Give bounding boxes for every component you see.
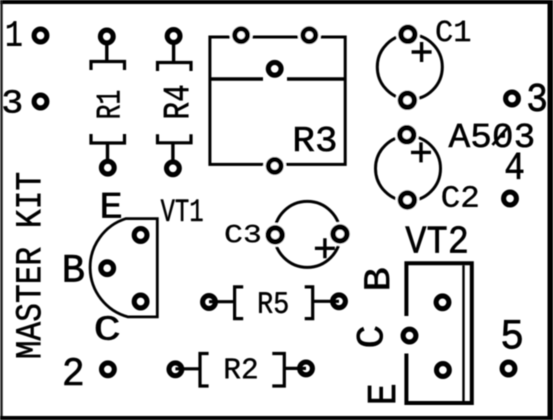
pad R4 top: [167, 30, 180, 43]
resistor R2: [169, 354, 312, 387]
mask top-left pad gap: [230, 24, 253, 47]
pad 4: [504, 192, 517, 205]
slash of zero: [493, 126, 510, 145]
pad C2 plus: [400, 128, 414, 142]
capacitor C2: [376, 123, 478, 212]
wire R5 right lead: [313, 300, 339, 303]
wire R3 wiper line right: [287, 77, 345, 80]
label MASTER KIT: [16, 173, 41, 357]
pin label E: [102, 193, 120, 218]
pad VT1 base: [101, 262, 114, 275]
wire R1 top lead: [105, 42, 108, 62]
C1 body outline: [377, 35, 442, 100]
pad VT1 emitter: [134, 229, 147, 242]
pad VT2 emitter: [437, 364, 450, 377]
transistor VT2: [357, 226, 472, 403]
wire R4 top lead: [172, 42, 175, 63]
resistor R1: [91, 30, 125, 174]
pin label 3 (right): [528, 84, 545, 112]
pad R3 bottom: [268, 160, 281, 173]
mask C1 bottom pad gap: [395, 88, 419, 112]
pin label B: [364, 269, 389, 289]
pad VT2 base: [436, 296, 449, 309]
label VT2: [405, 226, 466, 252]
pad 2: [102, 363, 115, 376]
pad R2 right: [300, 362, 313, 375]
R1 body bottom bracket: [91, 134, 125, 143]
pin label C: [357, 327, 383, 347]
label VT1: [161, 199, 203, 221]
wire R3 wiper line left: [210, 77, 263, 80]
C3 polarity plus sign: [315, 238, 335, 258]
wire R2 right lead: [284, 367, 306, 370]
pad 5: [502, 362, 515, 375]
label R4: [164, 86, 188, 118]
pin label E: [368, 385, 395, 402]
label R2: [226, 358, 257, 378]
mask bottom pad gap: [263, 154, 286, 177]
wire R4 bottom lead: [171, 143, 174, 163]
mask C2 top pad gap: [395, 123, 419, 147]
label C2: [442, 186, 477, 207]
pad VT2 collector: [403, 329, 416, 342]
pin label 1: [7, 21, 21, 45]
pad C1 plus: [401, 27, 415, 41]
R4 body bottom bracket: [158, 134, 192, 143]
value label A503: [449, 124, 534, 148]
pad R4 bottom: [167, 162, 180, 175]
label R1: [97, 91, 120, 117]
R1 body top bracket: [91, 62, 125, 71]
label C1: [437, 20, 470, 41]
pad R3 top-right: [303, 29, 316, 42]
mask C2 bottom pad gap: [395, 188, 419, 212]
C2 polarity plus sign: [411, 142, 431, 162]
wire R5 left lead: [209, 300, 234, 303]
label R3: [295, 127, 335, 152]
capacitor C3: [226, 201, 352, 267]
pin label 2: [64, 358, 82, 385]
pin label C: [96, 316, 119, 340]
C3 body outline: [274, 201, 340, 267]
R2 body right bracket: [272, 354, 284, 387]
wire R1 bottom lead: [106, 143, 109, 162]
pad R3 top-left: [235, 29, 248, 42]
pad C3 plus: [333, 227, 347, 241]
VT2 tab line: [462, 265, 464, 401]
mask C3 right pad gap: [328, 222, 352, 246]
VT1 body outline: [90, 219, 157, 317]
trimmer resistor R3: [210, 24, 345, 178]
pad 3 (left): [34, 95, 47, 108]
capacitor C1: [377, 20, 470, 112]
R2 body left bracket: [200, 354, 209, 387]
pad 3 (right): [506, 92, 519, 105]
pad R1 top: [100, 30, 113, 43]
mask top-right pad gap: [298, 24, 321, 47]
R3 body outline: [210, 37, 345, 164]
pad VT1 collector: [134, 295, 147, 308]
pin label 3 (left): [3, 90, 20, 113]
R5 body left bracket: [235, 287, 244, 319]
pad R5 left: [203, 296, 216, 309]
C2 body outline: [376, 136, 441, 201]
pin label 4: [506, 153, 523, 179]
mask C1 top pad gap: [396, 22, 420, 46]
R4 body top bracket: [158, 63, 192, 72]
label R5: [259, 292, 287, 313]
pad 1: [34, 29, 47, 42]
pad R2 left: [169, 363, 182, 376]
pad R5 right: [333, 295, 346, 308]
wire R2 left lead: [175, 367, 200, 370]
label C3: [226, 225, 260, 243]
R5 body right bracket: [305, 287, 313, 319]
pad R3 wiper: [268, 62, 281, 75]
pad C2 minus: [400, 193, 414, 207]
pad C1 minus: [400, 93, 414, 107]
resistor R5: [203, 287, 346, 319]
pin label 5: [503, 320, 522, 349]
transistor VT1: [65, 193, 203, 340]
mask C3 left pad gap: [263, 223, 287, 247]
pad C3 minus: [268, 228, 282, 242]
pin label B: [65, 255, 84, 282]
pad R1 bottom: [101, 161, 114, 174]
C1 polarity plus sign: [412, 42, 432, 62]
resistor R4: [158, 30, 192, 175]
VT2 body outline: [406, 263, 471, 403]
